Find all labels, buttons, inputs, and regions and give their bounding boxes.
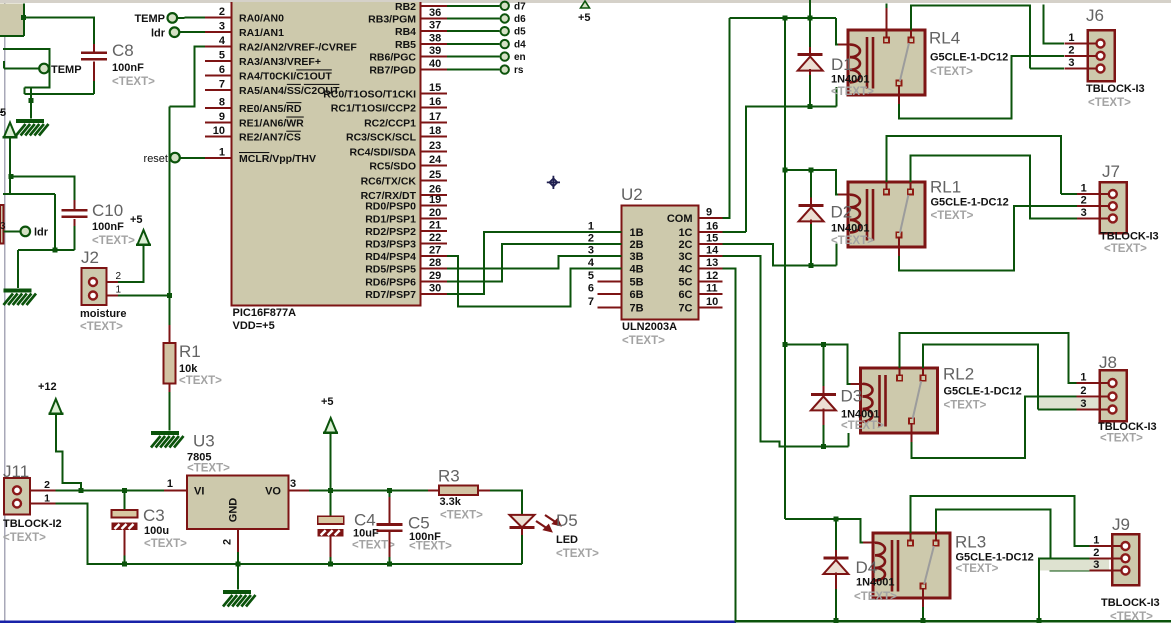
- svg-text:5C: 5C: [678, 276, 692, 288]
- svg-text:15: 15: [429, 82, 441, 94]
- svg-text:ULN2003A: ULN2003A: [622, 321, 677, 333]
- svg-text:J6: J6: [1086, 6, 1104, 25]
- svg-text:<TEXT>: <TEXT>: [144, 538, 187, 550]
- svg-text:RD7/PSP7: RD7/PSP7: [365, 289, 416, 301]
- svg-text:RA0/AN0: RA0/AN0: [239, 12, 284, 24]
- svg-text:VO: VO: [265, 486, 281, 498]
- svg-text:RL3: RL3: [955, 533, 986, 552]
- svg-text:d6: d6: [514, 14, 526, 25]
- svg-text:4: 4: [219, 35, 226, 47]
- svg-text:3.3k: 3.3k: [440, 496, 462, 508]
- svg-text:11: 11: [706, 283, 718, 295]
- svg-text:2B: 2B: [630, 239, 644, 251]
- svg-text:ldr: ldr: [151, 28, 166, 40]
- svg-text:<TEXT>: <TEXT>: [80, 321, 123, 333]
- svg-text:+5: +5: [321, 396, 334, 408]
- svg-text:16: 16: [429, 96, 441, 108]
- svg-text:36: 36: [429, 7, 441, 19]
- svg-text:<TEXT>: <TEXT>: [1110, 611, 1153, 623]
- svg-text:LED: LED: [556, 534, 578, 546]
- svg-text:RB3/PGM: RB3/PGM: [368, 14, 416, 26]
- svg-text:MCLR/Vpp/THV: MCLR/Vpp/THV: [239, 153, 316, 165]
- svg-text:TBLOCK-I3: TBLOCK-I3: [1101, 597, 1160, 609]
- svg-text:17: 17: [429, 111, 441, 123]
- svg-text:C8: C8: [112, 41, 134, 60]
- svg-text:100u: 100u: [144, 525, 169, 537]
- svg-text:2: 2: [1081, 195, 1087, 207]
- svg-text:<TEXT>: <TEXT>: [930, 66, 973, 78]
- svg-text:13: 13: [706, 257, 718, 269]
- svg-text:1: 1: [1081, 183, 1087, 195]
- svg-text:1N4001: 1N4001: [831, 74, 870, 86]
- svg-text:2: 2: [1093, 547, 1099, 559]
- svg-text:+12: +12: [38, 381, 57, 393]
- svg-text:<TEXT>: <TEXT>: [440, 510, 483, 522]
- svg-text:40: 40: [429, 58, 441, 70]
- svg-text:22: 22: [429, 232, 441, 244]
- svg-text:<TEXT>: <TEXT>: [112, 76, 155, 88]
- svg-text:3: 3: [588, 245, 594, 257]
- svg-text:RA2/AN2/VREF-/CVREF: RA2/AN2/VREF-/CVREF: [239, 42, 357, 54]
- svg-text:VDD=+5: VDD=+5: [233, 320, 275, 332]
- svg-text:<TEXT>: <TEXT>: [831, 235, 874, 247]
- svg-text:5: 5: [0, 107, 6, 119]
- svg-text:RE1/AN6/WR: RE1/AN6/WR: [239, 118, 304, 130]
- svg-text:3: 3: [0, 221, 6, 232]
- svg-text:7B: 7B: [630, 302, 644, 314]
- svg-text:12: 12: [706, 270, 718, 282]
- svg-text:6: 6: [219, 64, 225, 76]
- svg-text:D5: D5: [556, 511, 578, 530]
- svg-text:4B: 4B: [630, 264, 644, 276]
- svg-text:RC0/T1OSO/T1CKI: RC0/T1OSO/T1CKI: [323, 88, 416, 100]
- svg-text:D1: D1: [831, 55, 853, 74]
- svg-text:PIC16F877A: PIC16F877A: [233, 307, 297, 319]
- svg-text:RC3/SCK/SCL: RC3/SCK/SCL: [346, 132, 417, 144]
- svg-text:<TEXT>: <TEXT>: [3, 532, 46, 544]
- svg-text:3: 3: [1081, 207, 1087, 219]
- svg-text:2: 2: [115, 271, 121, 282]
- svg-text:GND: GND: [228, 498, 240, 523]
- svg-text:19: 19: [429, 194, 441, 206]
- svg-text:3C: 3C: [678, 251, 692, 263]
- svg-text:U3: U3: [193, 432, 215, 451]
- svg-text:R3: R3: [438, 467, 460, 486]
- svg-text:RD1/PSP1: RD1/PSP1: [365, 213, 416, 225]
- svg-text:2C: 2C: [678, 239, 692, 251]
- svg-text:RB6/PGC: RB6/PGC: [369, 52, 416, 64]
- svg-text:RB7/PGD: RB7/PGD: [369, 65, 416, 77]
- svg-text:3: 3: [1080, 398, 1086, 410]
- svg-text:1C: 1C: [678, 227, 692, 239]
- svg-text:rs: rs: [514, 65, 524, 76]
- svg-text:C5: C5: [408, 514, 430, 533]
- svg-text:28: 28: [429, 257, 441, 269]
- svg-text:J7: J7: [1102, 162, 1120, 181]
- svg-text:6: 6: [588, 283, 594, 295]
- svg-text:<TEXT>: <TEXT>: [854, 591, 897, 603]
- svg-text:9: 9: [219, 111, 225, 123]
- svg-text:J8: J8: [1099, 353, 1117, 372]
- svg-text:ldr: ldr: [34, 227, 49, 239]
- svg-text:2: 2: [1068, 44, 1074, 56]
- svg-text:2: 2: [588, 232, 594, 244]
- svg-text:+5: +5: [578, 12, 591, 24]
- svg-text:1N4001: 1N4001: [831, 223, 870, 235]
- svg-text:RC6/TX/CK: RC6/TX/CK: [361, 175, 417, 187]
- svg-text:<TEXT>: <TEXT>: [956, 563, 999, 575]
- svg-text:7: 7: [219, 78, 225, 90]
- svg-text:R1: R1: [179, 342, 201, 361]
- svg-text:14: 14: [706, 245, 719, 257]
- svg-text:100nF: 100nF: [112, 62, 144, 74]
- svg-text:5: 5: [219, 50, 225, 62]
- svg-text:RD6/PSP6: RD6/PSP6: [365, 276, 416, 288]
- svg-text:30: 30: [429, 282, 441, 294]
- svg-text:38: 38: [429, 33, 441, 45]
- svg-text:4C: 4C: [678, 264, 692, 276]
- svg-text:RC2/CCP1: RC2/CCP1: [364, 117, 416, 129]
- svg-text:1N4001: 1N4001: [856, 577, 895, 589]
- svg-text:10uF: 10uF: [353, 528, 379, 540]
- svg-text:16: 16: [706, 220, 718, 232]
- svg-text:TBLOCK-I3: TBLOCK-I3: [1100, 231, 1159, 243]
- svg-text:RC5/SDO: RC5/SDO: [369, 161, 416, 173]
- svg-text:<TEXT>: <TEXT>: [92, 235, 135, 247]
- svg-text:20: 20: [429, 207, 441, 219]
- svg-text:4: 4: [588, 257, 595, 269]
- svg-text:<TEXT>: <TEXT>: [409, 541, 452, 553]
- svg-text:29: 29: [429, 270, 441, 282]
- svg-text:8: 8: [219, 97, 225, 109]
- svg-text:RD3/PSP3: RD3/PSP3: [365, 239, 416, 251]
- svg-text:<TEXT>: <TEXT>: [944, 400, 987, 412]
- svg-text:<TEXT>: <TEXT>: [1104, 243, 1147, 255]
- svg-text:2: 2: [1080, 385, 1086, 397]
- svg-text:<TEXT>: <TEXT>: [187, 463, 230, 475]
- svg-text:37: 37: [429, 20, 441, 32]
- svg-text:9: 9: [706, 207, 712, 219]
- svg-text:<TEXT>: <TEXT>: [1088, 97, 1131, 109]
- svg-text:RB2: RB2: [395, 1, 416, 13]
- svg-text:3: 3: [219, 20, 225, 32]
- svg-text:RC4/SDI/SDA: RC4/SDI/SDA: [349, 146, 416, 158]
- svg-text:<TEXT>: <TEXT>: [556, 548, 599, 560]
- svg-text:3: 3: [1068, 57, 1074, 69]
- svg-text:1: 1: [219, 147, 225, 159]
- svg-text:<TEXT>: <TEXT>: [841, 420, 884, 432]
- svg-text:6C: 6C: [678, 289, 692, 301]
- svg-text:2: 2: [222, 539, 234, 545]
- svg-text:10: 10: [213, 125, 225, 137]
- svg-text:<TEXT>: <TEXT>: [622, 335, 665, 347]
- svg-text:RB4: RB4: [395, 26, 416, 38]
- svg-text:1N4001: 1N4001: [841, 409, 880, 421]
- svg-text:TBLOCK-I2: TBLOCK-I2: [3, 518, 62, 530]
- svg-text:27: 27: [429, 245, 441, 257]
- svg-text:reset: reset: [144, 153, 168, 165]
- svg-text:1: 1: [44, 493, 50, 505]
- svg-text:5: 5: [588, 270, 594, 282]
- svg-text:24: 24: [429, 154, 442, 166]
- svg-text:RC1/T1OSI/CCP2: RC1/T1OSI/CCP2: [331, 103, 416, 115]
- svg-text:RA1/AN1: RA1/AN1: [239, 27, 284, 39]
- svg-text:18: 18: [429, 125, 441, 137]
- svg-text:1: 1: [588, 220, 594, 232]
- svg-text:1: 1: [167, 478, 173, 490]
- svg-text:G5CLE-1-DC12: G5CLE-1-DC12: [930, 52, 1008, 64]
- svg-text:D2: D2: [831, 203, 853, 222]
- svg-text:J9: J9: [1112, 515, 1130, 534]
- svg-text:1: 1: [1093, 535, 1099, 547]
- svg-text:G5CLE-1-DC12: G5CLE-1-DC12: [944, 386, 1022, 398]
- svg-text:<TEXT>: <TEXT>: [179, 375, 222, 387]
- svg-text:RL1: RL1: [930, 178, 961, 197]
- svg-text:RD4/PSP4: RD4/PSP4: [365, 251, 416, 263]
- svg-text:D3: D3: [841, 387, 863, 406]
- svg-text:3B: 3B: [630, 251, 644, 263]
- svg-text:10: 10: [706, 296, 718, 308]
- svg-text:RD0/PSP0: RD0/PSP0: [365, 201, 416, 213]
- svg-text:C3: C3: [143, 506, 165, 525]
- svg-text:7: 7: [588, 296, 594, 308]
- svg-text:5B: 5B: [630, 276, 644, 288]
- svg-text:2: 2: [44, 479, 50, 491]
- svg-text:D4: D4: [856, 558, 878, 577]
- svg-text:3: 3: [290, 478, 296, 490]
- svg-text:TBLOCK-I3: TBLOCK-I3: [1098, 421, 1157, 433]
- svg-text:TEMP: TEMP: [134, 13, 165, 25]
- svg-text:J2: J2: [81, 248, 99, 267]
- svg-text:6B: 6B: [630, 289, 644, 301]
- svg-text:15: 15: [706, 232, 718, 244]
- svg-text:1: 1: [1080, 372, 1086, 384]
- svg-text:d5: d5: [514, 27, 526, 38]
- svg-text:RD5/PSP5: RD5/PSP5: [365, 264, 416, 276]
- svg-text:<TEXT>: <TEXT>: [1100, 433, 1143, 445]
- svg-text:J11: J11: [3, 462, 29, 481]
- svg-text:TEMP: TEMP: [51, 64, 82, 76]
- svg-text:RA3/AN3/VREF+: RA3/AN3/VREF+: [239, 56, 321, 68]
- svg-text:100nF: 100nF: [92, 221, 124, 233]
- svg-text:COM: COM: [667, 213, 693, 225]
- svg-text:2: 2: [219, 6, 225, 18]
- svg-text:1: 1: [115, 285, 121, 296]
- svg-text:21: 21: [429, 219, 441, 231]
- svg-text:G5CLE-1-DC12: G5CLE-1-DC12: [956, 552, 1034, 564]
- svg-text:39: 39: [429, 45, 441, 57]
- svg-text:25: 25: [429, 169, 441, 181]
- svg-text:10k: 10k: [179, 363, 198, 375]
- svg-text:RB5: RB5: [395, 39, 416, 51]
- svg-text:d4: d4: [514, 40, 526, 51]
- svg-text:d7: d7: [514, 1, 526, 12]
- svg-text:en: en: [514, 52, 526, 63]
- svg-text:RE0/AN5/RD: RE0/AN5/RD: [239, 103, 302, 115]
- svg-text:RL4: RL4: [929, 29, 960, 48]
- svg-text:1B: 1B: [630, 227, 644, 239]
- svg-text:<TEXT>: <TEXT>: [931, 210, 974, 222]
- svg-text:C10: C10: [92, 201, 123, 220]
- svg-text:U2: U2: [621, 185, 643, 204]
- svg-text:RE2/AN7/CS: RE2/AN7/CS: [239, 132, 301, 144]
- svg-text:RA4/T0CKI/C1OUT: RA4/T0CKI/C1OUT: [239, 70, 332, 82]
- svg-text:TBLOCK-I3: TBLOCK-I3: [1086, 83, 1145, 95]
- svg-text:RL2: RL2: [943, 365, 974, 384]
- svg-text:23: 23: [429, 140, 441, 152]
- svg-text:+5: +5: [130, 214, 143, 226]
- svg-text:VI: VI: [194, 486, 204, 498]
- svg-text:1: 1: [1068, 32, 1074, 44]
- svg-text:3: 3: [1093, 559, 1099, 571]
- svg-text:G5CLE-1-DC12: G5CLE-1-DC12: [931, 197, 1009, 209]
- svg-text:moisture: moisture: [80, 308, 126, 320]
- svg-text:<TEXT>: <TEXT>: [831, 86, 874, 98]
- svg-text:RD2/PSP2: RD2/PSP2: [365, 226, 416, 238]
- svg-text:7C: 7C: [678, 302, 692, 314]
